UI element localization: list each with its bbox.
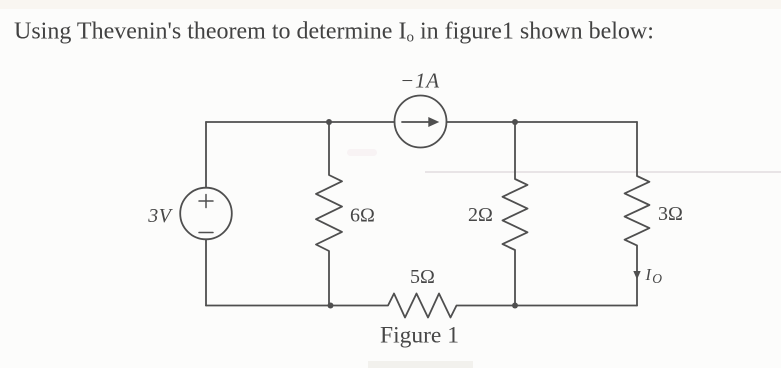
svg-text:5Ω: 5Ω (410, 266, 435, 288)
svg-text:IO: IO (645, 265, 663, 286)
svg-text:Using Thevenin's theorem to de: Using Thevenin's theorem to determine Io… (14, 18, 654, 45)
svg-text:2Ω: 2Ω (468, 204, 493, 226)
svg-text:−1A: −1A (400, 69, 440, 93)
svg-text:Figure 1: Figure 1 (380, 323, 459, 349)
svg-text:3Ω: 3Ω (658, 203, 683, 225)
svg-text:3V: 3V (147, 205, 174, 227)
svg-text:6Ω: 6Ω (350, 205, 375, 227)
